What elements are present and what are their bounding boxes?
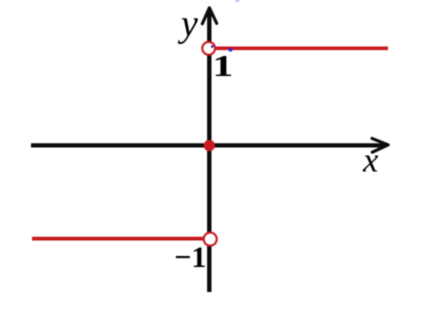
open circle at (0,-1): [204, 233, 217, 246]
open circle at (0,1): [202, 42, 215, 55]
red segment y=1 for x>0: [214, 46, 389, 50]
svg-text:x: x: [362, 141, 379, 179]
y-axis arrowhead: [202, 8, 216, 24]
y-axis shaft: [207, 10, 211, 293]
x-axis arrowhead: [372, 138, 388, 152]
red segment y=-1 for x<0: [32, 237, 205, 241]
filled red dot at origin: [204, 140, 215, 151]
svg-text:−1: −1: [174, 241, 206, 274]
svg-text:1: 1: [212, 48, 233, 83]
faint blue dot at top edge: [235, 0, 239, 2]
svg-text:y: y: [177, 3, 198, 45]
blue square marker inside top circle: [211, 45, 213, 47]
blue dot on red line: [229, 48, 233, 52]
x-axis shaft: [31, 143, 386, 147]
